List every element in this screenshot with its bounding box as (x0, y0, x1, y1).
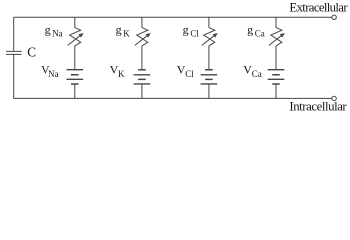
battery VNa value label (41, 63, 59, 79)
svg-text:Na: Na (48, 69, 59, 79)
svg-text:Extracellular: Extracellular (289, 1, 348, 15)
wire branch Ca bottom (battery VCa to rail) (275, 84, 277, 98)
wire branch Cl bottom (battery VCl to rail) (208, 84, 210, 98)
variable resistor gCa arrow (269, 33, 285, 45)
terminal circle intracellular (332, 96, 336, 100)
resistor gK value label (116, 22, 131, 38)
resistor gCl value label (183, 22, 200, 38)
variable resistor gNa zigzag (70, 28, 81, 46)
battery VK value label (110, 63, 125, 79)
svg-text:g: g (247, 22, 253, 36)
svg-text:Intracellular: Intracellular (289, 100, 347, 113)
svg-text:Ca: Ca (255, 28, 265, 38)
wire branch K middle (resistor gK to battery VK) (141, 46, 143, 70)
wire branch Cl top (rail to resistor gCl) (208, 17, 210, 27)
terminal circle extracellular (332, 15, 336, 19)
svg-text:g: g (183, 22, 189, 36)
wire branch Na top (rail to resistor gNa) (74, 17, 76, 27)
variable resistor gK zigzag (137, 28, 148, 46)
capacitor C plates (6, 51, 22, 54)
wire branch Ca middle (resistor gCa to battery VCa) (275, 46, 277, 70)
wire left branch upper (to capacitor C) (13, 17, 15, 51)
svg-text:Na: Na (52, 28, 63, 38)
svg-text:g: g (116, 22, 122, 36)
resistor gNa value label (45, 22, 63, 38)
wire top rail (Extracellular) (14, 16, 332, 18)
svg-text:K: K (118, 69, 125, 79)
wire branch Na middle (resistor gNa to battery VNa) (74, 46, 76, 70)
wire branch K bottom (battery VK to rail) (141, 84, 143, 98)
battery VNa plates (67, 70, 84, 84)
battery VCl plates (201, 70, 218, 84)
variable resistor gCa zigzag (271, 28, 282, 46)
svg-text:Ca: Ca (252, 69, 262, 79)
battery VCl value label (177, 63, 195, 79)
wire branch Ca top (rail to resistor gCa) (275, 17, 277, 27)
resistor gCa value label (247, 22, 265, 38)
wire branch Cl middle (resistor gCl to battery VCl) (208, 46, 210, 70)
variable resistor gK arrow (135, 33, 151, 45)
battery VCa plates (268, 70, 285, 84)
variable resistor gCl arrow (202, 33, 218, 45)
wire branch K top (rail to resistor gK) (141, 17, 143, 27)
wire branch Na bottom (battery VNa to rail) (74, 84, 76, 98)
battery VCa value label (243, 63, 262, 79)
battery VK plates (134, 70, 151, 84)
wire bottom rail (Intracellular) (14, 97, 332, 99)
svg-text:Cl: Cl (190, 28, 199, 38)
svg-text:g: g (45, 22, 51, 36)
variable resistor gNa arrow (68, 33, 84, 45)
svg-text:Cl: Cl (185, 69, 194, 79)
svg-text:C: C (27, 44, 36, 59)
variable resistor gCl zigzag (204, 28, 215, 46)
svg-text:K: K (123, 28, 130, 38)
wire left branch lower (capacitor C to bottom rail) (13, 54, 15, 98)
